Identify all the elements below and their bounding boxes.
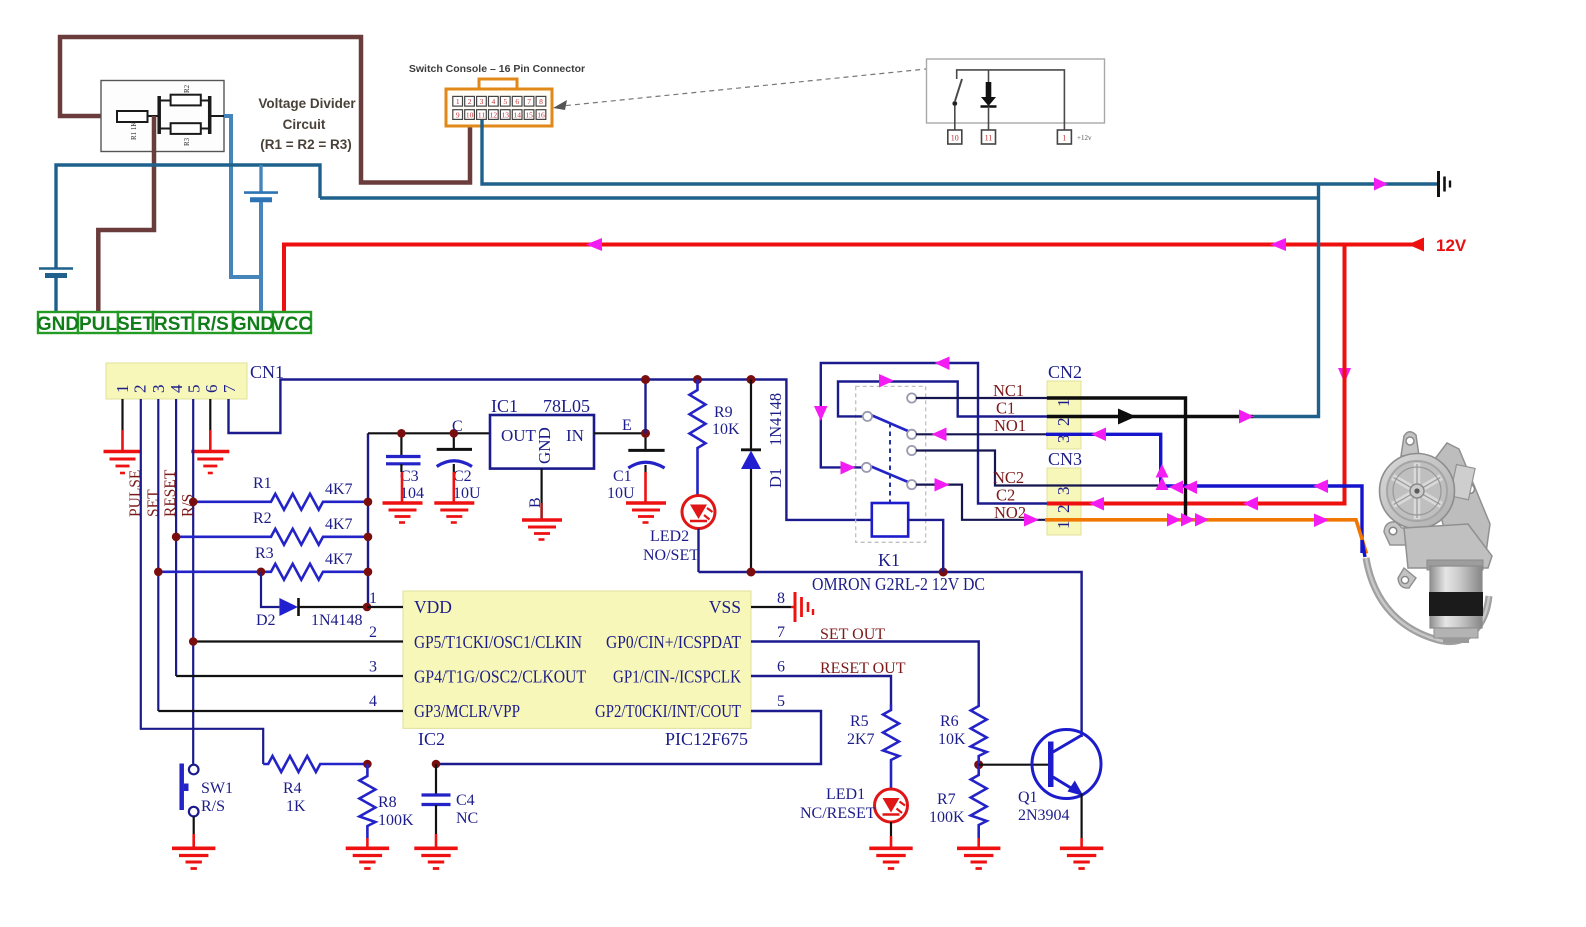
motor bottom cap (1434, 628, 1478, 638)
arrows triple on orange (1167, 513, 1181, 527)
detail switch lever (955, 79, 962, 101)
wire blue NO1 thick (1046, 434, 1362, 553)
svg-text:1: 1 (1062, 134, 1066, 143)
svg-text:3: 3 (480, 97, 484, 106)
relay coil K1 (872, 503, 908, 537)
svg-text:RST: RST (154, 314, 192, 335)
svg-text:SET: SET (117, 314, 154, 335)
switch SW1 (189, 765, 199, 775)
svg-text:2K7: 2K7 (847, 731, 875, 748)
svg-text:R8: R8 (378, 794, 397, 811)
wire red 12V from VCC (284, 245, 1424, 313)
detail box (switch and LED) (927, 59, 1105, 123)
wire NO2 jog (916, 485, 1046, 520)
wire node in picture (148, 115, 160, 117)
svg-text:11: 11 (985, 134, 993, 143)
connector CN body (orange) (479, 79, 517, 90)
relay coil right lead (908, 520, 943, 572)
IC2 pin 3 lead (176, 675, 403, 677)
wire CN1 pin7 to +12 rail (229, 380, 872, 520)
svg-text:VCC: VCC (272, 314, 312, 335)
junction dots on +5V rail (364, 498, 373, 507)
svg-text:13: 13 (502, 110, 510, 119)
svg-text:R1: R1 (253, 475, 272, 492)
CN1 pin numbers 1-7 (113, 384, 239, 393)
VSS power symbol (791, 592, 813, 622)
svg-text:R9: R9 (714, 404, 733, 421)
svg-text:NO1: NO1 (994, 416, 1026, 435)
wire maroon loop from voltage divider to connector pin 10 (60, 37, 470, 183)
diode D1 (750, 380, 752, 451)
IC2 pin 7 lead / SET OUT (751, 642, 979, 702)
svg-text:4: 4 (492, 97, 496, 106)
battery B2 (244, 191, 278, 194)
wire battery B1 to GND box (54, 278, 57, 312)
svg-text:1N4148: 1N4148 (311, 612, 363, 629)
junction dot E node (641, 429, 650, 438)
svg-text:IN: IN (566, 426, 584, 445)
diode D2 (279, 598, 298, 616)
svg-text:C2: C2 (453, 468, 472, 485)
svg-text:78L05: 78L05 (543, 396, 590, 416)
motor top ear (1401, 432, 1419, 456)
svg-text:NC1: NC1 (993, 381, 1024, 400)
svg-text:LED1: LED1 (826, 786, 865, 803)
relay wire inner loop (pole 1) (838, 382, 1047, 417)
black arrow on C1 (1118, 409, 1136, 425)
svg-text:Voltage Divider: Voltage Divider (258, 96, 356, 111)
arrow on NO2 before CN3 (1024, 513, 1039, 527)
svg-text:4: 4 (369, 693, 377, 710)
svg-text:LED2: LED2 (650, 528, 689, 545)
connector pins 1-8 (453, 96, 546, 106)
svg-text:2: 2 (1054, 505, 1073, 514)
wire LED1 to ground (890, 822, 892, 836)
svg-text:Circuit: Circuit (283, 117, 326, 132)
relay wire outer loop (pole 2) (821, 363, 1047, 504)
Q1 emitter to ground (1080, 794, 1082, 839)
ground under C1 (644, 472, 647, 503)
svg-text:5: 5 (503, 97, 507, 106)
CN1 pin1 stub to ground (121, 399, 123, 430)
arrows relay area (879, 374, 894, 388)
arrow down on red branch (1338, 368, 1351, 383)
connector pins 9-16 (453, 110, 546, 120)
svg-text:16: 16 (537, 110, 545, 119)
wire CN1 pin2 PULSE (141, 399, 263, 764)
svg-text:12V: 12V (1436, 236, 1467, 255)
LED2 (682, 496, 715, 529)
junction dot R8 top (363, 760, 372, 769)
resistor R3 (voltage divider picture) (171, 123, 201, 134)
resistor R9 (690, 380, 706, 496)
junction dot R3 left branch (257, 568, 266, 577)
ground under LED1 (869, 848, 912, 868)
svg-text:R3: R3 (255, 545, 274, 562)
detail inner wire top (957, 70, 1065, 130)
svg-text:CN1: CN1 (250, 362, 284, 382)
pointer dashed line to detail box (557, 69, 926, 107)
ground under SW1 (192, 834, 195, 848)
resistor R7 (971, 765, 987, 838)
wire red vertical branch to C2 (1047, 245, 1345, 504)
chassis ground symbol (1437, 171, 1440, 197)
svg-text:NC2: NC2 (993, 468, 1024, 487)
svg-text:11: 11 (478, 110, 485, 119)
relay linkage dashed (889, 423, 891, 503)
svg-text:4K7: 4K7 (325, 481, 353, 498)
bottom rail (coil drive) (699, 572, 1082, 737)
svg-text:R3: R3 (183, 137, 191, 146)
svg-text:R5: R5 (850, 713, 869, 730)
svg-text:CN2: CN2 (1048, 362, 1082, 382)
svg-text:3: 3 (149, 385, 168, 394)
wire SW1 to ground (193, 816, 195, 834)
svg-text:RESET OUT: RESET OUT (820, 660, 906, 677)
arrow on orange near motor (1314, 514, 1329, 528)
svg-text:1: 1 (113, 385, 132, 394)
ground under CN1 pin6 (209, 430, 212, 451)
svg-text:1: 1 (369, 590, 377, 607)
svg-text:E: E (622, 417, 632, 434)
svg-text:OUT: OUT (501, 426, 537, 445)
relay K1 outline (dashed) (856, 386, 926, 542)
motor cable (1366, 558, 1489, 642)
resistor R4 (263, 756, 368, 772)
svg-text:1N4148: 1N4148 (766, 393, 785, 446)
svg-text:Q1: Q1 (1018, 789, 1038, 806)
svg-text:8: 8 (777, 590, 785, 607)
svg-text:104: 104 (400, 485, 424, 502)
capacitor C4 (435, 764, 437, 795)
IC2 pin 6 lead / RESET OUT (751, 676, 891, 705)
CN1 pin6 stub to ground (209, 399, 211, 430)
ground under Q1 (1060, 848, 1103, 868)
svg-text:RESET: RESET (162, 469, 179, 517)
IC2 pin 2 lead (193, 640, 403, 642)
voltage divider picture frame (101, 81, 224, 152)
svg-text:R1 1K: R1 1K (130, 122, 138, 140)
svg-text:GP1/CIN-/ICSPCLK: GP1/CIN-/ICSPCLK (613, 667, 741, 687)
arrow on red C2 line (1089, 497, 1104, 511)
svg-text:C1: C1 (996, 399, 1015, 418)
resistor R3 (158, 564, 368, 580)
svg-text:2N3904: 2N3904 (1018, 807, 1070, 824)
svg-text:CN3: CN3 (1048, 449, 1082, 469)
svg-text:GP3/MCLR/VPP: GP3/MCLR/VPP (414, 701, 520, 721)
wire orange NO2 thick (1045, 520, 1367, 554)
detail diode branch (988, 70, 990, 82)
connector CN1 (106, 363, 247, 399)
IC2 pin 4 lead (158, 710, 403, 712)
junction dot C4 top (432, 760, 441, 769)
resistor R6 (971, 701, 987, 765)
svg-text:7: 7 (220, 384, 239, 393)
arrows on red 12V line (586, 238, 602, 251)
svg-text:GND: GND (37, 314, 79, 335)
svg-text:NC/RESET: NC/RESET (800, 805, 876, 822)
wire teal from connector pin 11 to chassis ground (right) (482, 120, 1437, 184)
svg-text:NO2: NO2 (994, 503, 1026, 522)
IC2 pin 5 lead (436, 711, 821, 764)
svg-text:SW1: SW1 (201, 780, 233, 797)
svg-text:100K: 100K (929, 809, 965, 826)
IC1 IN lead (594, 432, 646, 434)
parallel bracket right bar (208, 96, 212, 134)
IC2 pin 8 VSS lead (751, 606, 791, 608)
arrows left pair right of junction (1169, 481, 1183, 495)
svg-text:VSS: VSS (709, 597, 741, 617)
battery B2 stub (259, 165, 262, 192)
wire NC1 (916, 397, 1047, 399)
svg-text:C: C (452, 418, 463, 435)
detail pin box 11 (982, 130, 996, 144)
svg-text:OMRON G2RL-2 12V DC: OMRON G2RL-2 12V DC (812, 574, 985, 594)
wire teal long rail to relay area (320, 196, 1319, 199)
vertical +5V rail left of IC1 (367, 433, 369, 607)
resistor R8 (359, 764, 375, 838)
svg-text:VDD: VDD (414, 597, 452, 617)
svg-text:6: 6 (515, 97, 519, 106)
svg-text:GND: GND (535, 427, 554, 464)
svg-text:4K7: 4K7 (325, 551, 353, 568)
connector pin numbers (456, 97, 545, 119)
svg-text:R/S: R/S (201, 798, 225, 815)
junction dot D1 bottom (747, 568, 756, 577)
svg-text:14: 14 (513, 110, 521, 119)
wire NO1 (to CN2) (916, 433, 1047, 435)
svg-text:IC2: IC2 (418, 729, 445, 749)
svg-text:6: 6 (202, 385, 221, 394)
junction dot R3/SET (154, 568, 163, 577)
wire CN1 pin3 SET (157, 399, 159, 711)
svg-text:1: 1 (456, 97, 460, 106)
IC1 GND lead (540, 469, 542, 503)
svg-text:SET: SET (145, 489, 162, 517)
wire black C1 thick (1047, 415, 1253, 418)
wire maroon from divider node to PUL (98, 116, 154, 312)
svg-text:GND: GND (232, 314, 274, 335)
transistor Q1 2N3904 (1032, 730, 1101, 799)
motor cylinder body (1427, 560, 1483, 570)
connector CN3 (1047, 468, 1081, 535)
motor bracket right (1428, 443, 1490, 560)
svg-text:C4: C4 (456, 792, 475, 809)
svg-text:R2: R2 (183, 84, 191, 93)
wire light blue from divider output to GND box (224, 116, 261, 277)
capacitor C1 (644, 433, 646, 450)
svg-text:10U: 10U (607, 485, 635, 502)
svg-text:GP5/T1CKI/OSC1/CLKIN: GP5/T1CKI/OSC1/CLKIN (414, 632, 582, 652)
svg-text:Switch Console – 16 Pin Connec: Switch Console – 16 Pin Connector (409, 63, 585, 75)
IC2 PIC12F675 (403, 591, 751, 728)
svg-text:C1: C1 (613, 468, 632, 485)
svg-text:2: 2 (369, 624, 377, 641)
pointer arrowhead (553, 100, 567, 110)
wire CN1 pin5 R/S (192, 399, 194, 765)
svg-text:10U: 10U (453, 485, 481, 502)
svg-text:IC1: IC1 (491, 396, 518, 416)
junction dots on +12 rail (641, 375, 650, 384)
ground under CN1 pin1 (121, 430, 124, 451)
svg-text:5: 5 (777, 693, 785, 710)
svg-text:8: 8 (539, 97, 543, 106)
svg-text:10K: 10K (938, 731, 966, 748)
svg-text:100K: 100K (378, 812, 414, 829)
svg-text:3: 3 (1054, 487, 1073, 496)
ground under C4 (435, 834, 438, 848)
connector CN2 (1047, 381, 1081, 449)
svg-text:7: 7 (527, 97, 531, 106)
svg-text:6: 6 (777, 659, 785, 676)
svg-text:SET OUT: SET OUT (820, 626, 885, 643)
ground under C3 (401, 472, 404, 503)
wire CN1 pin4 RESET (175, 399, 177, 676)
svg-text:1: 1 (1054, 521, 1073, 530)
detail pin box 10 (948, 130, 962, 144)
detail switch wire to pin 10 (954, 106, 956, 130)
svg-text:2: 2 (1054, 418, 1073, 427)
svg-text:15: 15 (525, 110, 533, 119)
svg-text:D1: D1 (766, 468, 785, 488)
resistor R2 (176, 529, 368, 545)
arrow magenta on C1 (1239, 410, 1254, 424)
svg-text:10: 10 (951, 134, 959, 143)
wire teal vertical at right (1253, 184, 1319, 417)
svg-text:R/S: R/S (197, 314, 229, 335)
svg-text:5: 5 (185, 385, 204, 394)
svg-text:NO/SET: NO/SET (643, 547, 699, 564)
motor black band (1429, 592, 1483, 616)
ground under C2 (452, 472, 455, 503)
svg-text:7: 7 (777, 624, 785, 641)
ground under R8 (366, 838, 369, 848)
arrows up at NC2/NO1 junction (1156, 464, 1169, 478)
wire OUT line (368, 432, 490, 434)
motor flange under wheel (1384, 522, 1468, 545)
detail pin box 1 +12v (1057, 130, 1071, 144)
svg-text:2: 2 (131, 385, 150, 394)
wire segments entering cable (1362, 540, 1365, 557)
junction dot R6/R7 (974, 760, 983, 769)
resistor R1 (193, 494, 368, 510)
svg-text:R6: R6 (940, 713, 959, 730)
svg-text:4K7: 4K7 (325, 516, 353, 533)
svg-text:1K: 1K (286, 798, 306, 815)
12V arrowhead (1408, 238, 1424, 252)
svg-text:9: 9 (456, 110, 460, 119)
parallel bracket left bar (157, 96, 161, 134)
ground under IC1 (540, 503, 543, 520)
svg-text:GP0/CIN+/ICSPDAT: GP0/CIN+/ICSPDAT (606, 632, 741, 652)
svg-text:R2: R2 (253, 510, 272, 527)
svg-text:10: 10 (466, 110, 474, 119)
wire D2 branch (261, 572, 279, 607)
svg-text:(R1 = R2 = R3): (R1 = R2 = R3) (260, 137, 352, 152)
wire teal horizontal top-left (56, 165, 320, 268)
resistor R1 (voltage divider picture) (117, 111, 148, 122)
regulator IC1 78L05 (490, 415, 594, 469)
motor gear housing (1404, 524, 1492, 568)
junction dot R1/RS (189, 498, 198, 507)
bracket joins (159, 100, 170, 102)
wire base to Q1 (979, 764, 1050, 766)
svg-text:D2: D2 (256, 612, 276, 629)
wire LED2 to bottom rail (697, 529, 699, 573)
svg-text:4: 4 (167, 384, 186, 393)
svg-text:C2: C2 (996, 486, 1015, 505)
wire picture output lead (210, 115, 224, 117)
ground under R7 (977, 838, 980, 848)
arrow on blue near motor (1313, 480, 1328, 494)
svg-text:1: 1 (1054, 399, 1073, 408)
relay contact circles (863, 412, 872, 421)
relay armature pole2 (870, 466, 908, 482)
IC2 pin 1 lead (367, 606, 403, 608)
arrow on teal ground line (1374, 178, 1388, 191)
capacitor C3 (400, 433, 402, 456)
wire black NC1 thick (1047, 398, 1186, 520)
motor wheel (1380, 454, 1455, 529)
svg-text:GP4/T1G/OSC2/CLKOUT: GP4/T1G/OSC2/CLKOUT (414, 667, 586, 687)
junction dot R2/RESET (172, 533, 181, 542)
svg-text:2: 2 (468, 97, 472, 106)
svg-text:10K: 10K (712, 421, 740, 438)
wire E node to +12 rail (644, 380, 646, 434)
svg-text:GP2/T0CKI/INT/COUT: GP2/T0CKI/INT/COUT (595, 701, 741, 721)
svg-text:K1: K1 (878, 550, 900, 570)
svg-text:3: 3 (369, 659, 377, 676)
junction dot coil lead (939, 568, 948, 577)
capacitor C2 (453, 433, 455, 449)
resistor R2 (voltage divider picture) (171, 95, 201, 106)
svg-text:PULSE: PULSE (127, 470, 144, 517)
battery B1 (39, 267, 73, 270)
wire battery B2 down to GND box (259, 202, 263, 312)
relay armature pole1 (871, 415, 908, 431)
motor lower ear (1398, 568, 1416, 588)
svg-text:NC: NC (456, 810, 478, 827)
svg-text:+12v: +12v (1077, 134, 1092, 142)
wire NC2 jog (916, 451, 1158, 486)
arrow on red to C2 (1243, 497, 1258, 511)
arrow on blue NO1 line (1091, 428, 1106, 442)
green terminal boxes GND PUL SET RST R/S GND VCC (38, 312, 311, 333)
resistor R5 (883, 705, 899, 790)
svg-text:R4: R4 (283, 780, 302, 797)
svg-text:12: 12 (490, 110, 498, 119)
LED1 (875, 789, 908, 822)
svg-text:PUL: PUL (79, 314, 117, 335)
svg-text:PIC12F675: PIC12F675 (665, 729, 748, 749)
svg-text:R7: R7 (937, 791, 956, 808)
